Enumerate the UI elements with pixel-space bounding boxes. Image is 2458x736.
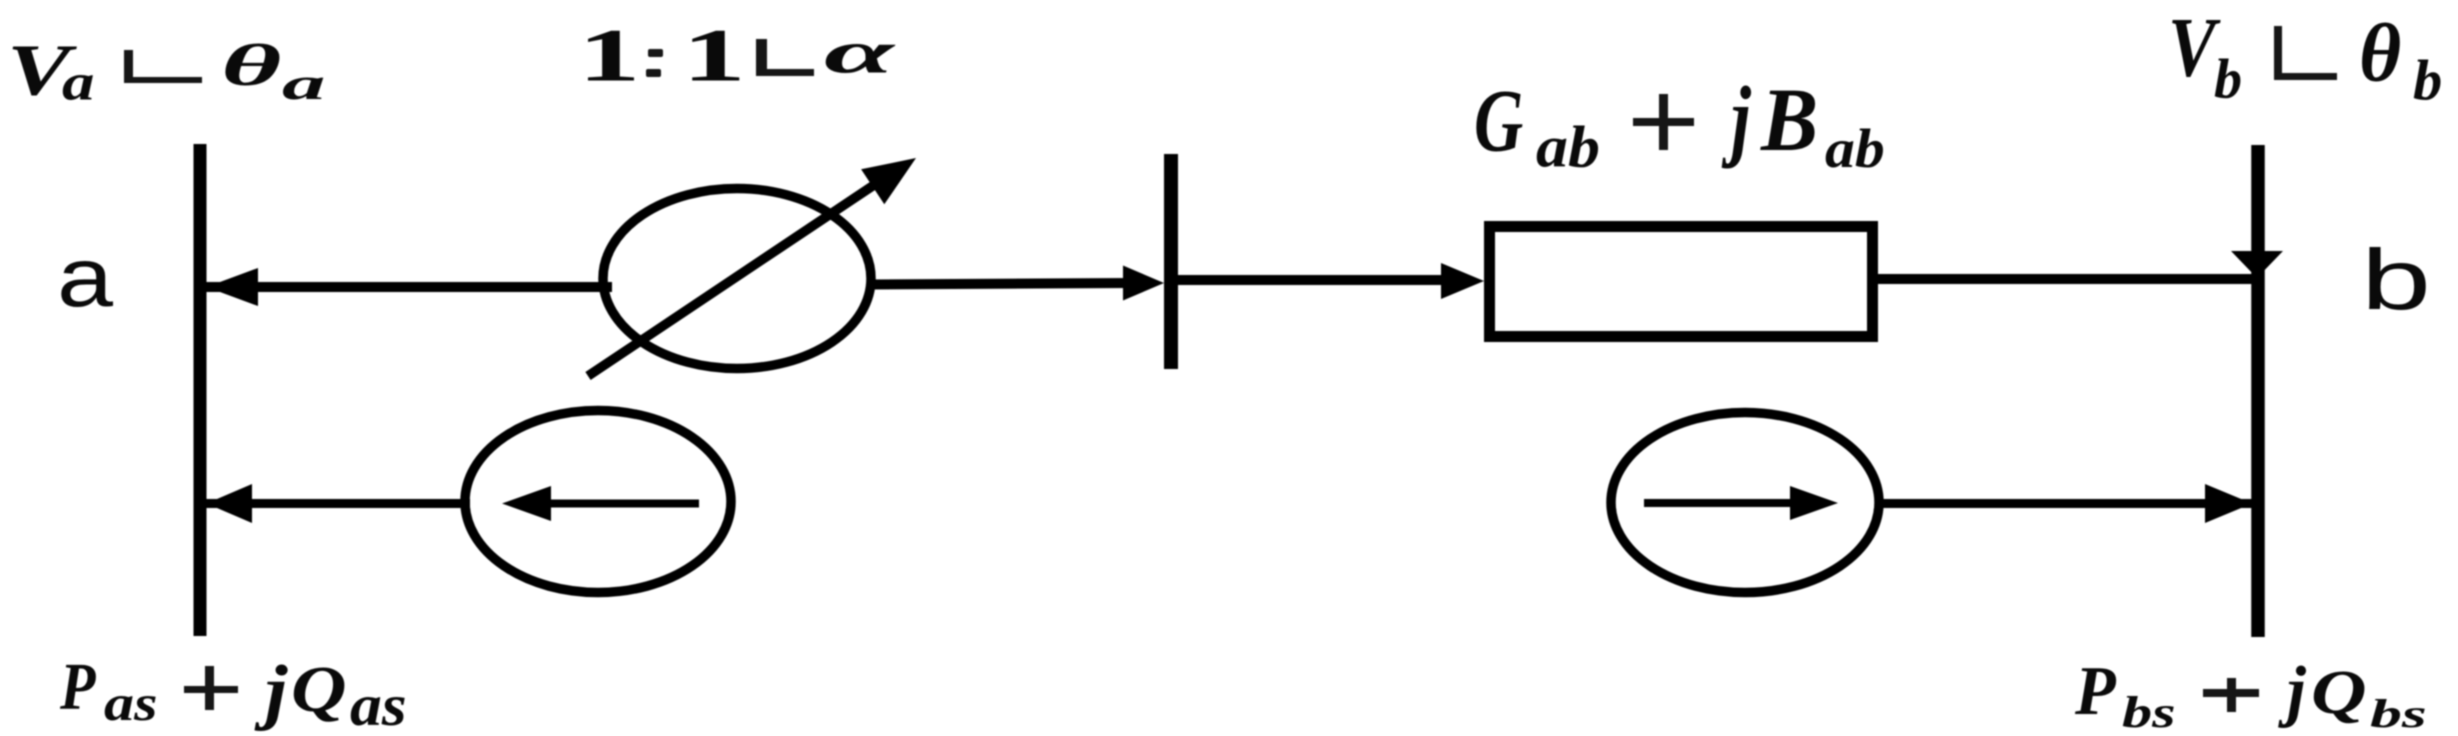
phase shifter diagonal arrow: [588, 181, 880, 376]
bus a: [194, 144, 207, 636]
wire shunt source b to bus b: [1877, 499, 2252, 508]
arrowhead at intermediate bar (pointing right): [1123, 266, 1164, 301]
angle symbol (Vb): [2274, 26, 2282, 80]
series admittance rectangle: [1490, 227, 1873, 337]
node label Vb: [2168, 6, 2216, 91]
arrow inside source a (pointing left): [545, 500, 699, 508]
theta_b: [2359, 13, 2401, 95]
arrowhead at bus a (bottom wire, pointing left): [207, 484, 253, 523]
theta_a: [221, 36, 281, 95]
transformer ratio label 1:1: [578, 18, 640, 94]
series admittance label Gab + jBab: [1474, 76, 1523, 165]
node label Va: [7, 33, 70, 107]
arrow inside source b (pointing right): [1644, 499, 1793, 507]
phase shifter ellipse U1: [603, 189, 871, 369]
arrowhead at bus b (pointing down): [2231, 251, 2283, 278]
arrowhead at admittance block (pointing right): [1441, 263, 1484, 299]
angle symbol (ratio): [756, 39, 767, 74]
bus label a: [57, 236, 113, 319]
bus label b: [2361, 238, 2431, 323]
alpha: [824, 23, 894, 83]
wire intermediate bar to series admittance: [1178, 275, 1448, 285]
bottom wire bus a to shunt source a: [206, 499, 470, 508]
arrowhead at bus b (bottom wire, pointing right): [2205, 484, 2252, 523]
colon dots: [648, 49, 663, 57]
wire bus a to phase shifter: [206, 282, 612, 292]
arrowhead at bus a (top wire, pointing left): [207, 268, 259, 306]
shunt current source b (ellipse): [1611, 413, 1879, 593]
injection label Pbs: [2075, 657, 2116, 727]
shunt current source a (ellipse): [465, 411, 731, 593]
injection label Pas: [60, 653, 96, 719]
intermediate bus bar: [1164, 154, 1178, 369]
bus b: [2251, 145, 2265, 637]
wire phase shifter to intermediate bar: [869, 283, 1130, 285]
wire admittance to bus b: [1878, 274, 2252, 284]
angle symbol (Va): [124, 50, 133, 83]
